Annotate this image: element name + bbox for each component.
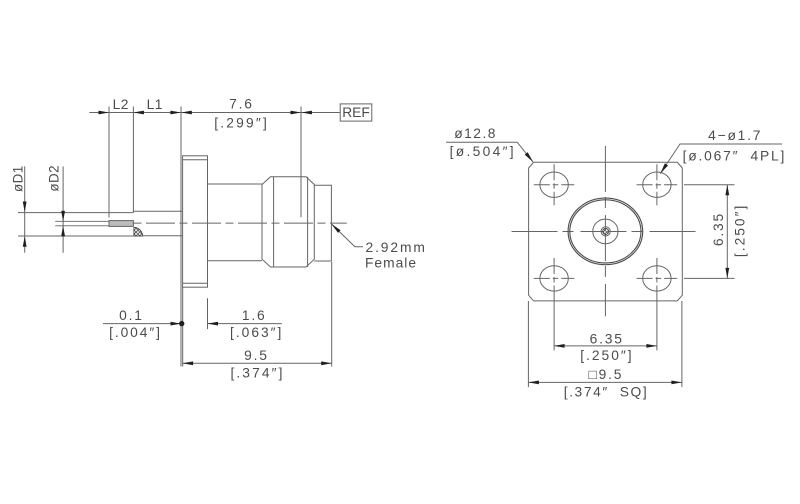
wire cable outer bottom line (18, 235, 133, 237)
dielectric hatch quarter-disc (134, 227, 143, 236)
arrow oD1 top (23, 202, 27, 213)
dim line oD2 (62, 166, 64, 252)
dim line oD1 (24, 166, 26, 252)
wire cable outer top line (18, 212, 133, 214)
crosshair hole top-right (637, 164, 678, 205)
svg-text:ø12.8: ø12.8 (454, 126, 497, 141)
dim line 9.5 square (528, 381, 682, 383)
mounting hole bottom-left (540, 266, 568, 291)
extension line L1 left (132, 107, 134, 212)
crosshair hole top-left (534, 164, 575, 205)
wire rear bore top line (133, 211, 182, 212)
arrow 9.5 square left (528, 381, 539, 385)
arrow 6.35 right bottom (725, 268, 729, 279)
socket circle (601, 227, 610, 236)
svg-text:[.299″]: [.299″] (214, 115, 269, 130)
hex face line right (307, 177, 309, 267)
svg-text:[.374″ SQ]: [.374″ SQ] (564, 384, 649, 399)
arrow 7.6 right (291, 111, 302, 115)
svg-text:6.35: 6.35 (711, 212, 726, 246)
arrow 1.6 (208, 322, 219, 326)
hex face line left (273, 177, 275, 267)
extension line 1.6 right (207, 298, 209, 329)
center pin hatched (603, 228, 609, 234)
svg-text:[ø.504″]: [ø.504″] (450, 144, 516, 159)
extension line interface plane (180, 107, 182, 367)
dim line 9.5 (183, 362, 332, 364)
svg-text:[.374″]: [.374″] (230, 365, 284, 380)
svg-text:4−ø1.7: 4−ø1.7 (708, 128, 762, 143)
body ring outer (568, 198, 643, 265)
svg-text:[.004″]: [.004″] (109, 325, 162, 340)
svg-text:2.92mm: 2.92mm (366, 240, 427, 255)
arrow REF tail left (301, 111, 312, 115)
flange chamfer line top (183, 159, 208, 161)
arrowhead 4-o1.7 (660, 163, 668, 173)
barrel top line (208, 183, 263, 185)
arrow 6.35 right top (725, 185, 729, 196)
crosshair hole bottom-right (637, 258, 678, 300)
wire rear bore bottom line (133, 235, 182, 237)
crosshair hole bottom-left (534, 258, 575, 300)
centerline left view (134, 222, 347, 224)
svg-text:REF: REF (342, 105, 370, 120)
arrow 9.5 left (183, 361, 194, 365)
svg-text:øD2: øD2 (46, 165, 61, 192)
arrow 6.35 bottom right (646, 344, 657, 348)
flange side rect (183, 156, 208, 287)
svg-text:[ø.067″ 4PL]: [ø.067″ 4PL] (683, 148, 786, 163)
barrel bottom line (208, 260, 263, 262)
svg-text:L2: L2 (113, 97, 129, 112)
REF box (340, 104, 372, 121)
arrow 6.35 bottom left (554, 344, 565, 348)
dimension line top (89, 112, 340, 114)
sleeve front outline (314, 185, 331, 261)
flange chamfer line bottom (183, 282, 208, 284)
arrow 9.5 square right (671, 381, 682, 385)
arrowhead o12.8 (525, 152, 534, 162)
svg-text:□9.5: □9.5 (589, 367, 624, 382)
arrow L2 left (99, 111, 110, 115)
arrow 9.5 right (321, 361, 332, 365)
dot 0.1 (179, 321, 184, 326)
body ring inner (570, 200, 641, 263)
hex nut outline (262, 177, 314, 267)
centerline horizontal (512, 231, 700, 233)
dim line 6.35 right (726, 185, 728, 279)
extension line holes bottom-left (553, 300, 555, 350)
svg-text:1.6: 1.6 (242, 308, 267, 323)
extension line 9.5 right (331, 262, 333, 367)
svg-text:Female: Female (365, 256, 417, 271)
extension line 6.35 right bottom (684, 277, 735, 279)
mounting hole bottom-right (643, 266, 671, 291)
dim line 6.35 bottom (554, 345, 657, 347)
pin bar (109, 221, 133, 227)
extension line square left (527, 301, 529, 387)
extension line 6.35 right top (684, 184, 735, 186)
pin thin section lines (55, 221, 109, 225)
arrow L1 right (170, 111, 181, 115)
centerline vertical (604, 146, 606, 316)
arrow L2/L1 at 133 (133, 111, 144, 115)
extension line 7.6 right (300, 107, 302, 218)
mounting hole top-left (540, 172, 568, 197)
arrow 0.1 (171, 322, 182, 326)
arrow oD2 bottom (61, 226, 65, 237)
dim line 1.6 tail (208, 323, 282, 325)
extension line holes bottom-right (656, 300, 658, 350)
svg-text:øD1: øD1 (10, 165, 25, 192)
leader 2.92mm Female (331, 224, 363, 247)
extension line L2 left (108, 107, 110, 218)
leader 4-o1.7 (660, 144, 782, 174)
svg-text:[.063″]: [.063″] (230, 325, 283, 340)
svg-text:0.1: 0.1 (119, 308, 144, 323)
flange square outline (529, 162, 683, 301)
dielectric circle (593, 219, 618, 244)
svg-text:6.35: 6.35 (590, 331, 624, 346)
flange face extension below (182, 287, 184, 366)
arrow oD1 bottom (23, 236, 27, 247)
extension line square right (681, 301, 683, 387)
arrowhead 2.92 leader (331, 224, 340, 233)
leader o12.8 (446, 142, 533, 162)
arrow oD2 top (61, 211, 65, 222)
svg-text:7.6: 7.6 (229, 97, 254, 112)
svg-text:L1: L1 (147, 97, 163, 112)
svg-text:9.5: 9.5 (244, 348, 269, 363)
arrow 7.6 left (181, 111, 192, 115)
svg-text:[.250″]: [.250″] (732, 204, 747, 257)
dim line 0.1 (103, 323, 182, 325)
mounting hole top-right (643, 172, 671, 197)
svg-text:[.250″]: [.250″] (580, 348, 633, 363)
